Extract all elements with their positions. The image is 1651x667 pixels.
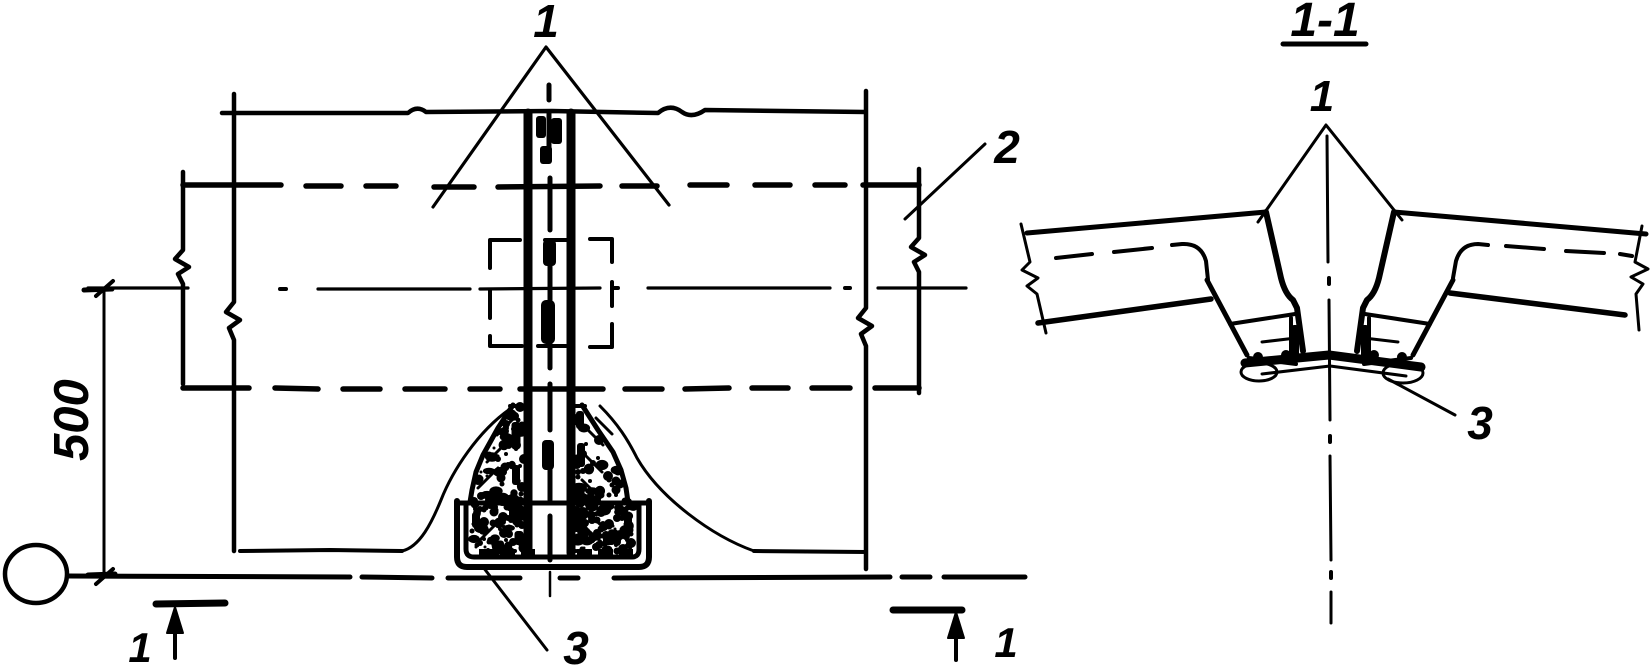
- pointer V for section label 1: [1258, 125, 1402, 222]
- section mark right: [893, 607, 962, 614]
- wire: left outer vertical edge: [175, 172, 189, 384]
- plate end lens left: [1241, 363, 1277, 381]
- right bucket inner marks: [1367, 318, 1371, 358]
- stipple dots, left column: [468, 402, 638, 556]
- anchor head blobs at post top: [536, 116, 562, 470]
- left bucket inner marks: [1289, 318, 1293, 358]
- right panel top edge: [1394, 212, 1646, 234]
- dimension line 500: [103, 288, 106, 577]
- post anchor rod centre dashed: [549, 85, 550, 596]
- leader for label 2: [905, 144, 985, 219]
- dashed rail line lower: [183, 388, 919, 389]
- base channel outer: [457, 501, 649, 567]
- base channel top flange lines: [457, 501, 649, 506]
- right panel break edge: [1631, 226, 1648, 330]
- svg-text:1-1: 1-1: [1290, 0, 1359, 47]
- axis marker circle: [5, 545, 67, 603]
- top edge of panel (plan strip): [222, 108, 865, 115]
- left panel break edge: [1021, 224, 1046, 333]
- svg-text:3: 3: [563, 622, 589, 667]
- left panel bottom edge: [1038, 299, 1211, 323]
- svg-text:1: 1: [128, 624, 151, 667]
- left weld blobs: [1253, 325, 1299, 362]
- concrete encasement right boundary: [582, 405, 628, 502]
- svg-text:1: 1: [533, 0, 559, 47]
- terrain line right: [754, 551, 866, 552]
- concrete encasement left boundary: [470, 405, 513, 502]
- svg-text:500: 500: [45, 379, 99, 461]
- title underline: [1283, 42, 1366, 47]
- leader for label 3 right: [1388, 379, 1455, 415]
- dashed inspection rectangle: [490, 239, 612, 347]
- svg-text:3: 3: [1467, 397, 1493, 449]
- terrain line left: [240, 550, 402, 551]
- pointer V for label 1: [433, 47, 669, 207]
- right bucket bottom: [1364, 358, 1411, 364]
- concrete mound outline left: [402, 407, 513, 551]
- leader for label 3 left: [483, 567, 547, 650]
- base channel inner: [466, 503, 639, 557]
- channel shim feet: [479, 549, 633, 558]
- left panel hidden dashed line: [1056, 244, 1208, 280]
- wire: left inner vertical panel edge: [226, 94, 240, 551]
- concrete mound outline right: [600, 406, 754, 551]
- centre axis line horizontal: [88, 288, 966, 289]
- base plate: [1245, 355, 1421, 367]
- right web fold: [1357, 212, 1394, 351]
- encasement top edges: [510, 404, 585, 408]
- section mark left: [156, 603, 225, 604]
- right weld blobs: [1361, 325, 1407, 362]
- left bucket bottom: [1249, 358, 1296, 364]
- svg-text:1: 1: [1310, 72, 1334, 121]
- wire: right inner vertical panel edge: [858, 91, 872, 569]
- svg-text:1: 1: [994, 619, 1017, 666]
- left bucket top: [1230, 314, 1295, 324]
- centre axis vertical: [1327, 136, 1331, 623]
- wire: right outer vertical edge: [911, 169, 925, 393]
- left funnel outer wall: [1207, 280, 1247, 355]
- plate end lens right: [1383, 363, 1423, 383]
- right bucket top: [1365, 314, 1430, 324]
- left web fold: [1266, 212, 1303, 351]
- ground datum line: [68, 576, 1025, 578]
- post channel left wall: [524, 113, 533, 553]
- left panel top edge: [1027, 212, 1266, 233]
- right funnel outer wall: [1413, 280, 1453, 355]
- post channel right wall: [567, 113, 576, 553]
- dashed rail line upper: [183, 185, 919, 187]
- svg-text:2: 2: [993, 121, 1020, 173]
- right panel hidden dashed line: [1453, 244, 1632, 278]
- right panel bottom edge: [1450, 293, 1625, 315]
